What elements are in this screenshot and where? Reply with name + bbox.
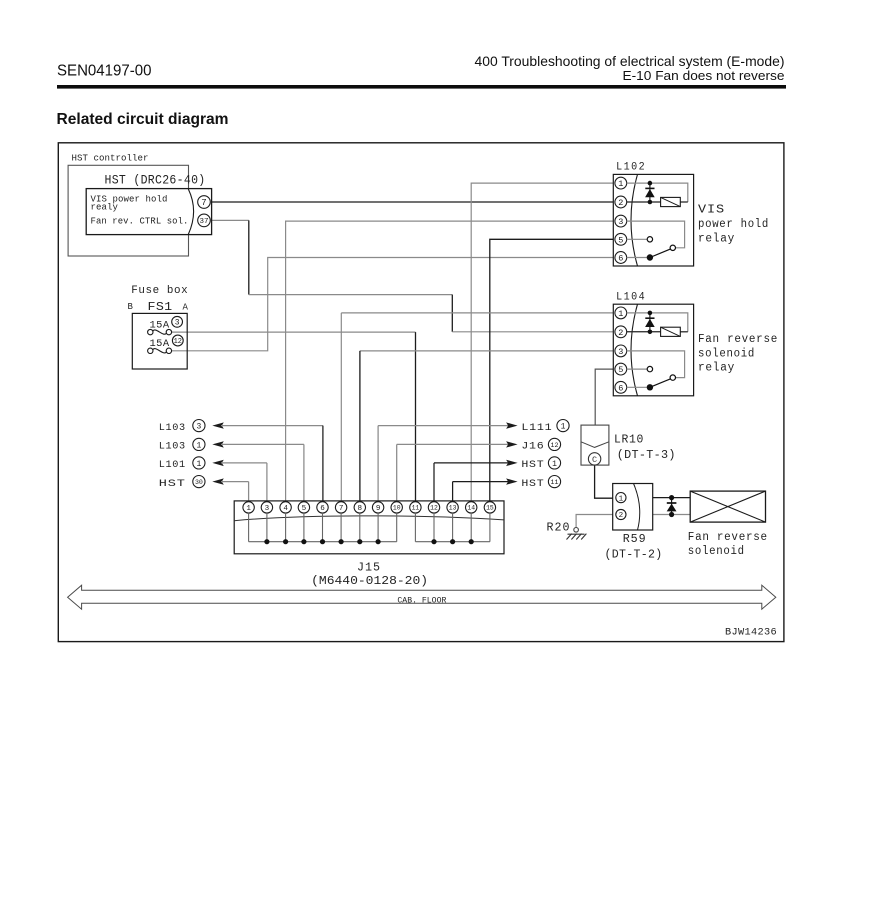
J15 bus B junction at pin x=434.0 [431, 539, 436, 544]
svg-text:realy: realy [91, 203, 119, 213]
svg-text:7: 7 [201, 198, 206, 208]
svg-text:E-10 Fan does not reverse: E-10 Fan does not reverse [623, 69, 785, 83]
fuse F2 element [148, 348, 153, 353]
svg-text:solenoid: solenoid [698, 347, 755, 360]
svg-text:12: 12 [174, 338, 182, 346]
relay LR10 V mark [581, 442, 609, 448]
svg-text:HST (DRC26-40): HST (DRC26-40) [105, 172, 206, 187]
fan reverse solenoid body [690, 491, 765, 522]
svg-text:FS1: FS1 [148, 300, 173, 314]
svg-text:1: 1 [618, 309, 623, 319]
svg-text:11: 11 [412, 505, 420, 512]
svg-text:12: 12 [551, 442, 559, 449]
svg-text:1: 1 [619, 495, 624, 503]
svg-text:R59: R59 [623, 532, 647, 546]
diagram border frame [58, 143, 784, 642]
wire R59 to solenoid (top) [653, 497, 691, 499]
svg-text:15: 15 [486, 505, 494, 512]
HST controller box [68, 165, 188, 256]
relay L102 pin 1 [615, 177, 627, 189]
relay L104 pin 1 [615, 307, 627, 319]
svg-text:1: 1 [561, 422, 566, 431]
svg-text:4: 4 [283, 505, 288, 513]
relay L102 contact NO terminal [647, 237, 652, 242]
wire L104 pin1 to J15 pin7 [341, 312, 613, 314]
relay L104 body [613, 304, 693, 396]
svg-text:14: 14 [467, 505, 475, 512]
wire from J15 to L111 1 [377, 426, 379, 502]
svg-text:5: 5 [302, 505, 307, 513]
svg-text:L102: L102 [616, 162, 646, 174]
svg-text:B: B [128, 302, 134, 312]
svg-text:power hold: power hold [698, 218, 769, 231]
relay L104 diode [648, 311, 653, 316]
svg-text:relay: relay [698, 362, 735, 375]
relay L104 pin 6 [615, 381, 627, 393]
relay L102 pin 5 [615, 233, 627, 245]
connector J15 pin 7 [335, 502, 346, 513]
relay L102 contact throw terminal [670, 245, 675, 250]
fuse box FS1 body [132, 313, 187, 369]
svg-text:5: 5 [618, 365, 623, 375]
svg-text:6: 6 [618, 254, 623, 264]
relay L104 coil [661, 327, 681, 336]
svg-text:1: 1 [552, 460, 557, 469]
wire R59 to solenoid (bottom) [653, 514, 691, 516]
wire from J15 to HST 1 [433, 463, 435, 502]
svg-text:15A: 15A [150, 339, 170, 350]
svg-text:1: 1 [196, 441, 201, 450]
relay R59 pin 2 [616, 509, 626, 519]
relay L104 pin 2 [615, 326, 627, 338]
J15 bus B junction at pin x=471.2 [469, 539, 474, 544]
relay L102 pin 2 [615, 196, 627, 208]
wire L102 pin5 to J15 pin15 [490, 239, 614, 502]
svg-text:Fan rev. CTRL sol.: Fan rev. CTRL sol. [91, 217, 189, 227]
svg-text:30: 30 [195, 479, 203, 486]
svg-text:400 Troubleshooting of electri: 400 Troubleshooting of electrical system… [475, 53, 785, 69]
relay L102 contact wiring [627, 221, 685, 248]
svg-text:1: 1 [246, 505, 251, 513]
relay L104 contact NO terminal [647, 366, 652, 371]
relay L104 separator curve [631, 304, 638, 396]
svg-text:5: 5 [618, 235, 623, 245]
relay L102 pin 6 [615, 252, 627, 264]
relay L102 separator curve [631, 174, 638, 266]
svg-text:HST: HST [159, 478, 186, 490]
J15 bus A junction at pin x=266.9 [264, 539, 269, 544]
svg-text:7: 7 [339, 505, 344, 513]
relay LR10 terminal C [588, 453, 600, 465]
wire L102 pin6 to fuse F2 [172, 258, 614, 351]
wire L102 pin1 to J15 pin14 [471, 183, 613, 502]
svg-text:37: 37 [199, 218, 208, 226]
connector J15 pin 10 [391, 502, 402, 513]
J15 internal bus B [414, 513, 416, 542]
relay L102 contact arm [647, 254, 653, 260]
wire LR10 to R59 pin1 [595, 465, 613, 498]
relay L102 coil [661, 197, 681, 206]
J15 bus B junction at pin x=452.6 [450, 539, 455, 544]
J15 bus A junction at pin x=303.9 [301, 539, 306, 544]
wire HST pin7 to L102 pin2 [210, 201, 613, 203]
wire from J15 to J16 12 [396, 444, 398, 501]
svg-text:C: C [592, 455, 597, 465]
connector J15 pin 14 [466, 502, 477, 513]
pin 7 of HST connector [198, 196, 211, 209]
svg-text:L111: L111 [521, 422, 552, 434]
svg-text:6: 6 [320, 505, 325, 513]
J15 bus A junction at pin x=322.5 [320, 539, 325, 544]
svg-text:13: 13 [449, 505, 457, 512]
svg-text:3: 3 [618, 217, 623, 227]
connector J15 pin 9 [372, 502, 383, 513]
relay L102 body [613, 174, 693, 266]
diode D2 [671, 498, 673, 515]
svg-text:Fuse box: Fuse box [131, 285, 188, 297]
svg-text:J15: J15 [357, 561, 381, 575]
svg-text:HST: HST [521, 459, 544, 471]
svg-text:(DT-T-2): (DT-T-2) [605, 548, 663, 561]
svg-text:3: 3 [618, 347, 623, 357]
svg-text:J16: J16 [521, 441, 544, 453]
svg-text:relay: relay [698, 232, 735, 245]
connector J15 pin 6 [317, 502, 328, 513]
connector J15 pin 1 [243, 502, 254, 513]
wire to L103 1 [212, 441, 224, 447]
svg-text:SEN04197-00: SEN04197-00 [57, 62, 152, 79]
svg-text:11: 11 [551, 479, 559, 486]
connector J15 separator curve [234, 516, 504, 521]
svg-text:3: 3 [196, 422, 201, 431]
wire to L101 1 [212, 460, 224, 466]
relay LR10 body [581, 425, 609, 465]
wire from J15 to HST 11 [452, 482, 454, 502]
connector J15 pin 4 [280, 502, 291, 513]
ground R20 symbol [567, 534, 587, 540]
relay R59 separator curve [634, 484, 640, 531]
connector HST separator curve [188, 189, 193, 234]
header rule [57, 85, 786, 89]
svg-text:Fan reverse: Fan reverse [698, 333, 778, 346]
relay R59 pin 1 [616, 493, 626, 503]
svg-text:L103: L103 [159, 422, 186, 434]
wire to L103 3 [212, 422, 224, 428]
svg-text:VIS: VIS [698, 203, 725, 216]
connector J15 pin 8 [354, 502, 365, 513]
svg-text:8: 8 [358, 505, 363, 513]
svg-text:Related circuit diagram: Related circuit diagram [57, 111, 229, 128]
J15 bus A junction at pin x=341.1 [339, 539, 344, 544]
wire L102 pin3 to J15 pin4 [286, 221, 614, 502]
svg-text:1: 1 [618, 179, 623, 189]
wire L104 pin3 to J15 pin8 [360, 350, 613, 352]
relay L104 contact throw terminal [670, 375, 675, 380]
svg-text:HST: HST [521, 478, 544, 490]
relay L102 coil wiring [627, 183, 688, 202]
wire fuse F1 to J15 pin11 [172, 331, 416, 333]
svg-text:A: A [183, 303, 189, 313]
svg-text:9: 9 [376, 505, 381, 513]
fuse F1 element [148, 329, 153, 334]
relay L104 pin 3 [615, 345, 627, 357]
ground terminal circle [574, 528, 579, 533]
relay R59 body [613, 484, 653, 531]
svg-text:2: 2 [619, 512, 624, 520]
svg-text:solenoid: solenoid [688, 545, 745, 558]
connector J15 pin 11 [410, 502, 421, 513]
relay L102 diode [648, 181, 653, 186]
wire L104 pin5 to LR10 [595, 369, 613, 425]
wire HST pin37 to L104 pin2 [210, 219, 249, 221]
svg-text:(M6440-0128-20): (M6440-0128-20) [311, 574, 428, 588]
svg-text:3: 3 [265, 505, 270, 513]
wire R59 pin2 to ground R20 [576, 515, 613, 528]
connector J15 pin 3 [261, 502, 272, 513]
svg-text:10: 10 [393, 505, 401, 512]
fuse F2 pin 12 [172, 335, 183, 346]
svg-text:HST controller: HST controller [72, 153, 149, 164]
svg-text:LR10: LR10 [614, 433, 644, 446]
svg-text:L103: L103 [159, 441, 186, 453]
relay L104 coil wiring [627, 313, 688, 332]
svg-text:12: 12 [430, 505, 438, 512]
svg-text:CAB. FLOOR: CAB. FLOOR [397, 595, 446, 605]
relay L104 pin 5 [615, 363, 627, 375]
junction dots at diode D2 [669, 495, 674, 500]
svg-text:1: 1 [196, 460, 201, 469]
J15 bus A junction at pin x=285.6 [283, 539, 288, 544]
connector HST (DRC26-40) body [86, 189, 211, 235]
connector J15 pin 15 [484, 502, 495, 513]
pin 37 of HST connector [198, 214, 211, 227]
relay L102 pin 3 [615, 215, 627, 227]
relay L104 contact arm [647, 384, 653, 390]
svg-text:2: 2 [618, 328, 623, 338]
J15 bus A junction at pin x=378.1 [376, 539, 381, 544]
wire to HST 30 [212, 478, 224, 484]
svg-text:3: 3 [175, 319, 180, 328]
J15 bus A junction at pin x=359.8 [357, 539, 362, 544]
svg-text:L104: L104 [616, 291, 646, 303]
svg-text:Fan reverse: Fan reverse [688, 531, 768, 544]
relay L104 contact wiring [627, 351, 685, 378]
svg-text:6: 6 [618, 383, 623, 393]
connector J15 pin 5 [298, 502, 309, 513]
svg-text:(DT-T-3): (DT-T-3) [617, 449, 676, 462]
svg-text:BJW14236: BJW14236 [725, 627, 777, 639]
CAB. FLOOR span arrow [68, 585, 776, 609]
J15 internal bus A [248, 513, 250, 542]
svg-text:15A: 15A [150, 320, 170, 331]
svg-text:2: 2 [618, 198, 623, 208]
svg-text:R20: R20 [547, 522, 571, 535]
connector J15 body [234, 501, 504, 554]
connector J15 pin 13 [447, 502, 458, 513]
connector J15 pin 12 [428, 502, 439, 513]
fuse F1 pin 3 [172, 316, 183, 327]
svg-text:L101: L101 [159, 459, 186, 471]
